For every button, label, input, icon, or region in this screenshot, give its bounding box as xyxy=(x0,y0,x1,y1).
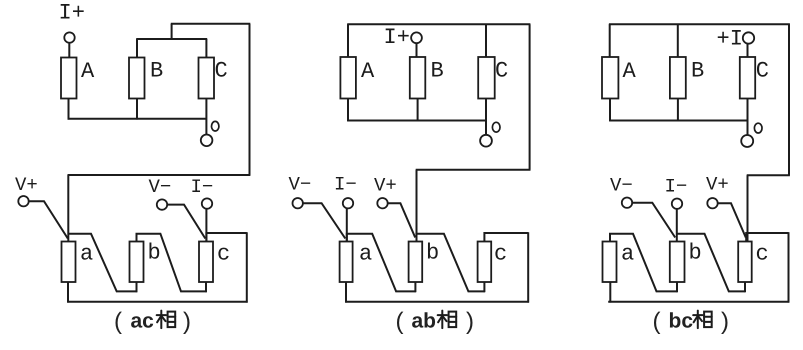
wire winding b bottom stub (phase ac) xyxy=(136,282,138,292)
wire winding c top jog right (phase ac) xyxy=(206,233,246,242)
wire resistor C bottom lead (phase bc) xyxy=(747,99,749,136)
terminal V+ (phase bc) xyxy=(707,198,717,208)
wire V+ lead to winding a top (phase ac) xyxy=(29,201,68,238)
svg-text:V+: V+ xyxy=(15,174,38,196)
svg-text:B: B xyxy=(691,59,704,84)
wire terminal I+ to resistor A top (phase ac) xyxy=(68,43,70,58)
wire V- lead to winding c top (phase ac) xyxy=(167,205,205,239)
wire zigzag b-top to c-bottom (phase ac) xyxy=(137,234,207,292)
wire terminal I+ to resistor C top (phase bc) xyxy=(747,44,749,57)
winding b (phase ab) xyxy=(409,242,423,283)
svg-text:V−: V− xyxy=(289,174,312,196)
svg-text:B: B xyxy=(431,59,444,84)
wire winding b bottom stub (phase ab) xyxy=(414,282,416,292)
svg-text:(: ( xyxy=(114,308,122,335)
wire resistor C bottom lead (phase ac) xyxy=(205,99,207,135)
wire winding a bottom stub (phase bc) xyxy=(609,282,611,303)
wire V- lead to winding b top (phase bc) xyxy=(632,203,675,238)
wire I- lead to winding b top (phase bc) xyxy=(676,209,678,242)
wire bottom rail of LV loop (phase ab) xyxy=(345,301,529,303)
wire I- lead to winding a top (phase ab) xyxy=(346,209,348,242)
svg-text:V−: V− xyxy=(610,175,633,197)
wire winding a bottom stub (phase ab) xyxy=(345,282,347,303)
wire V- lead to winding a top (phase ab) xyxy=(303,203,345,238)
wire winding c bottom stub (phase ac) xyxy=(205,282,207,292)
svg-text:I−: I− xyxy=(191,176,214,198)
terminal I+ (phase ac) xyxy=(64,32,74,42)
terminal open large (phase bc) xyxy=(741,135,753,147)
wire right side of LV loop (phase bc) xyxy=(788,232,790,302)
wire resistor B bottom stub (phase ac) xyxy=(136,99,138,120)
wire resistor A bottom stub (phase ab) xyxy=(347,99,349,122)
wire bottom bus A-B-C (phase ab) xyxy=(347,120,486,122)
svg-text:c: c xyxy=(756,242,769,267)
wire B-C top tie (phase ac) xyxy=(136,38,207,40)
wire cross-over horizontal (phase bc) xyxy=(747,174,790,176)
caption (ac相) xyxy=(114,308,191,335)
svg-text:c: c xyxy=(217,242,230,267)
wire right drop to LV side (phase bc) xyxy=(788,24,790,175)
resistor A (phase bc) xyxy=(602,57,618,99)
wire zigzag a-top to b-bottom (phase bc) xyxy=(610,234,678,292)
wire bottom rail of LV loop (phase ac) xyxy=(67,301,247,303)
wire right drop to LV side (phase ac) xyxy=(249,24,251,175)
resistor B (phase ab) xyxy=(410,57,426,99)
wire cross-over horizontal (phase ac) xyxy=(68,174,251,176)
wire zigzag a-top to b-bottom (phase ac) xyxy=(68,234,137,292)
terminal open large (phase ac) xyxy=(201,135,213,147)
wire resistor C bottom lead (phase ab) xyxy=(485,99,487,135)
wire zigzag b-top to c-bottom (phase bc) xyxy=(677,234,746,292)
terminal V+ (phase ab) xyxy=(377,198,387,208)
wire right drop to LV side (phase ab) xyxy=(529,24,531,170)
svg-text:V+: V+ xyxy=(706,174,729,196)
svg-text:a: a xyxy=(359,242,372,267)
terminal I- (phase bc) xyxy=(672,199,682,209)
svg-text:I+: I+ xyxy=(384,25,410,50)
svg-text:b: b xyxy=(148,241,161,266)
svg-text:b: b xyxy=(689,241,702,266)
wire winding c top jog right (phase bc) xyxy=(746,233,788,242)
svg-text:C: C xyxy=(215,59,228,84)
wire resistor C top stub (phase ab) xyxy=(485,24,487,57)
wire down to winding b top (phase ab) xyxy=(416,170,418,242)
svg-text:(: ( xyxy=(396,308,404,335)
terminal V- (phase bc) xyxy=(622,198,632,208)
wire bottom bus A-B-C (phase ac) xyxy=(68,118,207,120)
svg-text:I+: I+ xyxy=(59,1,85,26)
winding c (phase ab) xyxy=(478,242,492,283)
winding c (phase bc) xyxy=(738,242,752,283)
wire resistor A bottom stub (phase ac) xyxy=(68,99,70,120)
svg-text:C: C xyxy=(756,59,769,84)
wire resistor C top stub (phase ac) xyxy=(205,39,207,58)
terminal V- (phase ab) xyxy=(293,198,303,208)
terminal I- (phase ac) xyxy=(202,198,212,208)
svg-text:(: ( xyxy=(653,308,661,335)
svg-text:I−: I− xyxy=(665,176,688,198)
svg-text:ab: ab xyxy=(412,310,437,333)
svg-text:ac: ac xyxy=(131,310,155,333)
wire resistor A top stub (phase ab) xyxy=(347,24,349,57)
svg-text:A: A xyxy=(81,59,95,84)
winding c (phase ac) xyxy=(199,242,213,283)
terminal open small (phase ab) xyxy=(492,122,500,132)
svg-text:A: A xyxy=(623,59,637,84)
terminal I+ (phase ab) xyxy=(411,32,422,43)
svg-text:B: B xyxy=(150,59,163,84)
resistor C (phase ac) xyxy=(199,58,215,99)
terminal I- (phase ab) xyxy=(343,198,353,208)
wire winding a bottom stub (phase ac) xyxy=(67,282,69,303)
winding a (phase ab) xyxy=(340,242,353,283)
wire winding b bottom stub (phase bc) xyxy=(676,282,678,292)
wire terminal I+ to resistor B top (phase ab) xyxy=(416,43,418,57)
wire resistor A top stub (phase bc) xyxy=(609,24,611,57)
terminal open large (phase ab) xyxy=(480,135,492,147)
svg-text:b: b xyxy=(426,241,439,266)
wire resistor B top stub (phase ac) xyxy=(136,39,138,58)
resistor B (phase ac) xyxy=(129,58,145,99)
wire resistor B bottom stub (phase ab) xyxy=(417,99,419,122)
svg-text:C: C xyxy=(495,59,508,84)
svg-text:A: A xyxy=(361,59,375,84)
wire zigzag a-top to b-bottom (phase ab) xyxy=(347,234,416,292)
terminal V+ (phase ac) xyxy=(18,196,28,206)
wire top link horizontal (phase ac) xyxy=(171,23,251,25)
wire top link horizontal (phase bc) xyxy=(609,23,790,25)
caption glyph xiang (ac) xyxy=(157,311,176,329)
svg-text:V−: V− xyxy=(149,176,172,198)
wire down to winding c top (phase bc) xyxy=(747,175,749,241)
svg-text:V+: V+ xyxy=(374,175,397,197)
wire winding c top jog right (phase ab) xyxy=(484,233,528,242)
winding a (phase bc) xyxy=(603,242,617,283)
wire bottom rail of LV loop (phase bc) xyxy=(608,301,789,303)
caption (ab相) xyxy=(396,308,475,335)
wire riser to top link (phase ac) xyxy=(171,24,173,40)
svg-text:): ) xyxy=(183,308,191,335)
caption (bc相) xyxy=(653,308,730,335)
resistor A (phase ac) xyxy=(61,58,77,99)
svg-text:): ) xyxy=(721,308,729,335)
resistor C (phase ab) xyxy=(478,57,495,99)
svg-text:): ) xyxy=(466,308,474,335)
wire winding c bottom stub (phase bc) xyxy=(744,282,746,292)
terminal open small (phase bc) xyxy=(754,123,762,133)
resistor B (phase bc) xyxy=(670,57,686,99)
svg-text:bc: bc xyxy=(669,310,694,333)
wire V+ lead to winding c top (phase bc) xyxy=(718,203,746,237)
wire resistor B bottom stub (phase bc) xyxy=(677,99,679,122)
terminal open small (phase ac) xyxy=(212,121,219,131)
wire right side of LV loop (phase ac) xyxy=(246,232,248,302)
svg-text:I−: I− xyxy=(334,174,357,196)
terminal V- (phase ac) xyxy=(157,199,167,209)
wire bottom bus A-B-C (phase bc) xyxy=(609,120,747,122)
caption glyph xiang (bc) xyxy=(693,311,712,329)
winding b (phase bc) xyxy=(670,242,685,283)
wire top link horizontal (phase ab) xyxy=(347,23,530,25)
wire resistor B top stub (phase bc) xyxy=(677,24,679,57)
wire winding c bottom stub (phase ab) xyxy=(483,282,485,292)
wire resistor A bottom stub (phase bc) xyxy=(609,99,611,122)
wire I- lead to winding c top (phase ac) xyxy=(205,209,207,242)
winding b (phase ac) xyxy=(130,242,144,283)
svg-text:a: a xyxy=(621,242,634,267)
svg-text:a: a xyxy=(80,242,93,267)
wire V+ lead to winding b top (phase ab) xyxy=(388,203,415,237)
resistor A (phase ab) xyxy=(340,57,356,99)
svg-text:+I: +I xyxy=(717,27,743,52)
wire right side of LV loop (phase ab) xyxy=(527,232,529,302)
wire down to winding a top (phase ac) xyxy=(67,175,69,242)
winding a (phase ac) xyxy=(62,242,76,283)
resistor C (phase bc) xyxy=(740,57,755,99)
caption glyph xiang (ab) xyxy=(438,311,457,329)
terminal I+ (phase bc) xyxy=(743,32,754,43)
wire zigzag b-top to c-bottom (phase ab) xyxy=(415,234,485,292)
wire cross-over horizontal (phase ab) xyxy=(416,169,531,171)
svg-text:c: c xyxy=(494,242,507,267)
